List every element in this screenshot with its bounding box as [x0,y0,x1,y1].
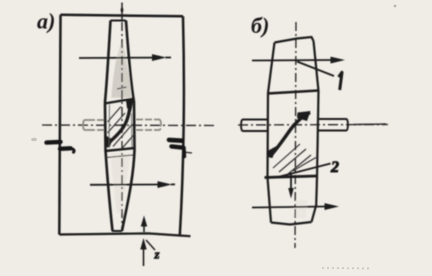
svg-text:z: z [154,247,161,262]
svg-text:2: 2 [330,159,339,176]
svg-text:а): а) [37,9,55,34]
svg-text:б): б) [251,13,269,38]
